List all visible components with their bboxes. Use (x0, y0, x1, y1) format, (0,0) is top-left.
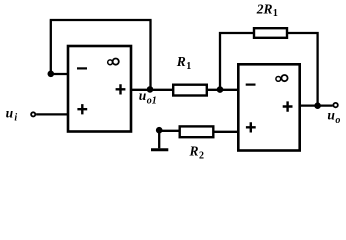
node at output (junction dot) (314, 102, 321, 109)
plus sign at non-inverting input of U1 (77, 104, 87, 114)
minus sign at inverting input of U2 (246, 83, 256, 85)
svg-text:u: u (139, 88, 147, 103)
svg-text:u: u (6, 106, 14, 121)
svg-text:R: R (189, 143, 199, 158)
wire from junction to inverting input of U1 (51, 73, 68, 75)
infinity gain symbol of U2 (276, 75, 288, 81)
plus sign at output of U2 (283, 101, 293, 111)
plus sign at output of U1 (116, 84, 126, 94)
node at inverting input of U1 (junction dot) (48, 71, 55, 78)
output terminal uo (open circle) (333, 103, 337, 107)
node at inverting input of U2 (junction dot) (217, 86, 224, 93)
svg-text:R: R (176, 54, 186, 69)
plus sign at non-inverting input of U2 (246, 122, 256, 132)
svg-text:1: 1 (186, 61, 191, 72)
node above ground (junction dot) (156, 127, 163, 134)
svg-text:i: i (14, 112, 17, 123)
wire from ground node to resistor R2 (159, 130, 180, 132)
label uo1 (139, 88, 157, 107)
resistor R2 (box) (180, 126, 214, 137)
label ui (6, 106, 18, 124)
infinity gain symbol of U1 (108, 59, 119, 65)
wire from R1 to inverting input of U2 (207, 89, 239, 91)
svg-text:u: u (327, 108, 335, 123)
wire from terminal ui to non-inverting input of U1 (36, 113, 68, 115)
svg-text:o1: o1 (147, 96, 157, 107)
svg-text:1: 1 (273, 8, 278, 19)
op-amp U2 (rectangle) (238, 64, 299, 150)
svg-text:o: o (335, 115, 340, 126)
label uo (327, 108, 340, 126)
wire from U2 output to terminal uo (300, 104, 333, 106)
input terminal ui (open circle) (31, 112, 35, 116)
op-amp U1 (rectangle) (68, 46, 131, 132)
minus sign at inverting input of U1 (77, 67, 87, 69)
label 2R1 (256, 1, 278, 19)
svg-text:2R: 2R (256, 1, 273, 16)
label R1 (176, 54, 192, 72)
label R2 (189, 143, 205, 161)
ground (151, 130, 168, 150)
wire from U1 output to resistor R1 (131, 89, 174, 91)
svg-text:2: 2 (199, 150, 204, 161)
node uo1 (junction dot) (147, 86, 154, 93)
resistor R1 (box) (173, 85, 207, 96)
wire feedback loop of op-amp U1 (left leg, top run, right leg) (50, 20, 152, 90)
wire from R2 to non-inverting input of U2 (213, 131, 238, 133)
wire feedback branch through 2R1 (up, across, down to output) (220, 32, 318, 106)
resistor 2R1 (box) (254, 28, 287, 38)
